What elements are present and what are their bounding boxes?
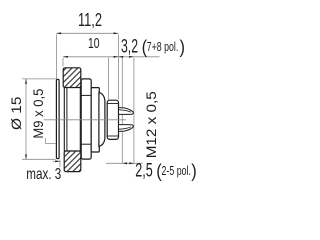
flange ring — [81, 79, 91, 159]
svg-text:3,2: 3,2 — [121, 36, 138, 57]
front tube M9 — [56, 79, 59, 158]
svg-text:2,5: 2,5 — [135, 161, 153, 182]
arrow 11,2 left — [56, 32, 61, 34]
insert holder — [107, 100, 118, 139]
dimension line 2,5 — [106, 162, 143, 164]
svg-text:M12 x 0,5: M12 x 0,5 — [143, 91, 159, 158]
nut knurl inner line — [66, 88, 68, 152]
extension line x=133.9 — [133, 58, 135, 164]
diameter 15 dimension line — [25, 79, 27, 159]
nut mid silhouette — [64, 88, 80, 152]
svg-text:M9 x 0,5: M9 x 0,5 — [30, 88, 46, 138]
upper lug fold line — [119, 110, 131, 112]
M9 leader line — [46, 138, 56, 144]
svg-text:2-5 pol.: 2-5 pol. — [162, 163, 192, 178]
svg-text:): ) — [180, 37, 186, 57]
arrow 11,2 right — [114, 32, 119, 34]
arrow 10 left — [63, 56, 68, 58]
neck with shoulder arcs — [99, 92, 105, 146]
dimension line 11,2 — [56, 32, 118, 34]
svg-text:max. 3: max. 3 — [26, 166, 61, 183]
svg-text:10: 10 — [88, 35, 100, 52]
upper solder lug — [119, 108, 134, 115]
dimension line 10 / 3,2 — [63, 56, 160, 58]
arrow 10 right / 3,2 left (double) — [114, 56, 119, 58]
dimension max.3 — [53, 160, 61, 162]
flange inner line top — [81, 94, 91, 96]
connector body — [56, 79, 133, 159]
flange inner line bottom — [81, 143, 91, 145]
svg-text:7+8 pol.: 7+8 pol. — [147, 39, 179, 54]
arrow 3,2 right — [129, 56, 134, 58]
extension line insert left (x=108.6) — [108, 58, 110, 100]
extension line left (x=57.8) — [56, 35, 58, 80]
nut bottom section hatched — [64, 151, 81, 172]
extension line right (x=118.4) — [117, 35, 119, 100]
nut top section hatched — [63, 68, 81, 88]
diameter 15 extension lines — [22, 78, 56, 80]
svg-text:Ø 15: Ø 15 — [9, 97, 24, 131]
extension line x=63 — [62, 58, 64, 67]
lower solder lug — [119, 125, 134, 132]
svg-text:): ) — [191, 161, 197, 181]
insert inner line — [107, 103, 118, 105]
centerline — [44, 119, 126, 121]
lower lug fold line — [119, 127, 131, 129]
extension line x=122.3 lug bend — [121, 58, 123, 164]
middle cylinder — [91, 88, 99, 152]
svg-text:11,2: 11,2 — [78, 10, 102, 30]
